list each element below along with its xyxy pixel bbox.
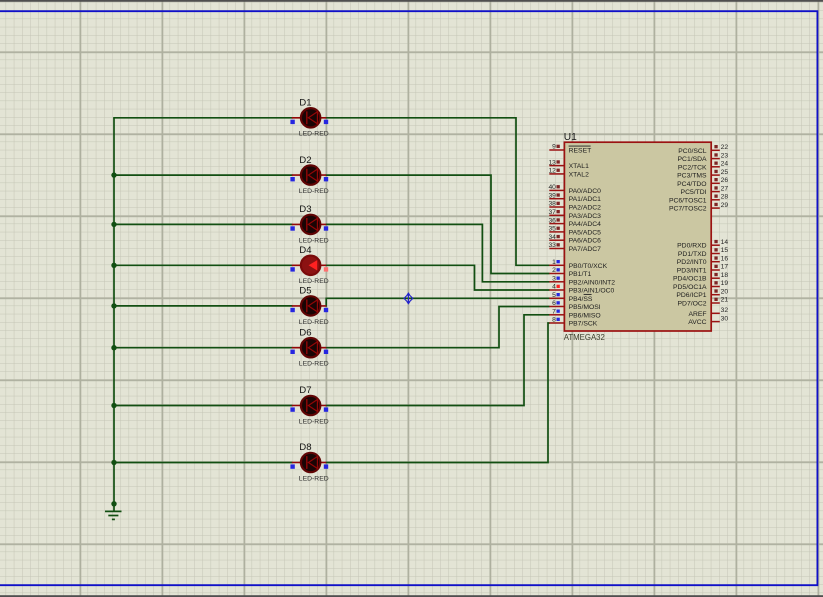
svg-text:14: 14 — [721, 239, 729, 246]
U1 right pin 27 (PC5/TDI) — [681, 185, 729, 196]
svg-text:34: 34 — [548, 234, 556, 241]
top dark edge — [0, 0, 823, 2]
wire: bus to D4 anode row — [113, 264, 292, 266]
U1 right pin 30 (AVCC) — [688, 315, 728, 326]
U1 right pin 32 (AREF) — [688, 307, 728, 318]
U1 left pin 36 (PA4/ADC4) — [548, 217, 601, 228]
LED D5 — [290, 286, 328, 326]
svg-text:40: 40 — [548, 184, 556, 191]
LED D1 — [290, 98, 328, 138]
U1 left pin 8 (PB7/SCK) — [549, 317, 597, 328]
U1 left pin 33 (PA7/ADC7) — [548, 242, 601, 253]
svg-text:LED-RED: LED-RED — [299, 319, 329, 326]
U1 right pin 19 (PD5/OC1A) — [673, 280, 728, 291]
svg-text:PD7/OC2: PD7/OC2 — [678, 301, 707, 308]
svg-text:21: 21 — [721, 297, 729, 304]
svg-text:PC2/TCK: PC2/TCK — [678, 164, 707, 171]
svg-text:8: 8 — [552, 317, 556, 324]
U1 right pin 20 (PD6/ICP1) — [676, 288, 728, 299]
svg-text:6: 6 — [552, 300, 556, 307]
svg-text:5: 5 — [552, 292, 556, 299]
wire: bus to D7 anode row — [113, 405, 292, 407]
svg-text:AVCC: AVCC — [688, 319, 706, 326]
LED D7 — [290, 385, 328, 425]
U1 right pin 25 (PC3/TMS) — [677, 169, 728, 180]
svg-text:22: 22 — [721, 144, 729, 151]
wire: D2 cathode to U1 pin 2 (PB1) — [326, 175, 550, 273]
svg-text:PB3/AIN1/OC0: PB3/AIN1/OC0 — [569, 288, 615, 295]
svg-text:9: 9 — [552, 144, 556, 151]
svg-text:PB1/T1: PB1/T1 — [569, 271, 592, 278]
svg-text:PB0/T0/XCK: PB0/T0/XCK — [569, 263, 608, 270]
junction on bus at D7 row — [111, 403, 116, 408]
LED D6 — [290, 327, 328, 367]
U1 right pin 14 (PD0/RXD) — [677, 239, 728, 250]
junction on bus at D6 row — [111, 345, 116, 350]
U1 left pin 5 (PB4/SS) — [549, 292, 593, 303]
junction on bus at D2 row — [111, 172, 116, 177]
svg-text:39: 39 — [548, 192, 556, 199]
U1 left pin 38 (PA2/ADC2) — [548, 201, 601, 212]
svg-text:PB7/SCK: PB7/SCK — [569, 321, 598, 328]
svg-text:18: 18 — [721, 272, 729, 279]
U1 left pin 34 (PA6/ADC6) — [548, 234, 601, 245]
junction on bus at D4 row — [111, 263, 116, 268]
U1 right pin 15 (PD1/TXD) — [678, 247, 728, 258]
svg-text:33: 33 — [548, 242, 556, 249]
svg-text:24: 24 — [721, 161, 729, 168]
wire: bus to D3 anode row — [113, 223, 292, 225]
svg-text:PC3/TMS: PC3/TMS — [677, 173, 707, 180]
wire: D1 cathode to U1 pin 1 (PB0) — [326, 118, 550, 265]
LED D4 — [290, 245, 328, 285]
svg-text:LED-RED: LED-RED — [299, 475, 329, 482]
junction on bus at D5 row — [111, 303, 116, 308]
U1 left pin 2 (PB1/T1) — [549, 267, 591, 278]
svg-text:AREF: AREF — [688, 311, 706, 318]
svg-text:PB4/SS: PB4/SS — [569, 296, 593, 303]
U1 left pin 1 (PB0/T0/XCK) — [549, 259, 607, 270]
U1 left pin 4 (PB3/AIN1/OC0) — [549, 284, 614, 295]
U1 right pin 21 (PD7/OC2) — [678, 297, 729, 308]
IC U1 body — [564, 142, 711, 331]
origin marker — [404, 293, 413, 304]
svg-text:27: 27 — [721, 185, 729, 192]
svg-text:PA4/ADC4: PA4/ADC4 — [569, 221, 602, 228]
svg-text:13: 13 — [548, 159, 556, 166]
svg-text:7: 7 — [552, 309, 556, 316]
svg-text:30: 30 — [721, 315, 729, 322]
junction at ground — [111, 501, 116, 506]
svg-text:PC7/TOSC2: PC7/TOSC2 — [669, 206, 707, 213]
svg-text:3: 3 — [552, 276, 556, 283]
U1 right pin 28 (PC6/TOSC1) — [669, 194, 728, 205]
svg-text:1: 1 — [552, 259, 556, 266]
svg-text:XTAL2: XTAL2 — [569, 171, 589, 178]
svg-text:D2: D2 — [299, 155, 311, 166]
svg-text:D4: D4 — [299, 245, 312, 256]
svg-text:D8: D8 — [299, 442, 311, 453]
svg-text:PD5/OC1A: PD5/OC1A — [673, 284, 707, 291]
svg-text:29: 29 — [721, 202, 729, 209]
U1 right pin 16 (PD2/INT0) — [677, 255, 729, 266]
svg-text:D7: D7 — [299, 385, 311, 396]
svg-text:D5: D5 — [299, 286, 311, 297]
U1 right pin 17 (PD3/INT1) — [677, 264, 729, 275]
svg-text:17: 17 — [721, 264, 729, 271]
wire: bus to D8 anode row — [113, 462, 292, 464]
svg-text:PD4/OC1B: PD4/OC1B — [673, 276, 707, 283]
svg-text:15: 15 — [721, 247, 729, 254]
LED D2 — [290, 155, 328, 195]
svg-text:PA2/ADC2: PA2/ADC2 — [569, 205, 602, 212]
svg-text:19: 19 — [721, 280, 729, 287]
U1 left pin 9 (RESET) — [549, 144, 591, 155]
svg-text:LED-RED: LED-RED — [299, 237, 329, 244]
svg-text:PA7/ADC7: PA7/ADC7 — [569, 246, 602, 253]
svg-text:LED-RED: LED-RED — [299, 131, 329, 138]
U1 left pin 7 (PB6/MISO) — [549, 309, 600, 320]
svg-text:28: 28 — [721, 194, 729, 201]
wire: bus to D1 anode row — [113, 117, 292, 119]
U1 right pin 24 (PC2/TCK) — [678, 161, 728, 172]
svg-text:12: 12 — [548, 168, 556, 175]
svg-text:2: 2 — [552, 267, 556, 274]
svg-text:D3: D3 — [299, 204, 311, 215]
U1 right pin 29 (PC7/TOSC2) — [669, 202, 728, 213]
svg-text:PC1/SDA: PC1/SDA — [678, 156, 708, 163]
svg-text:PD3/INT1: PD3/INT1 — [677, 268, 707, 275]
wire: D6 cathode to U1 pin 6 (PB5) — [326, 307, 550, 348]
svg-text:LED-RED: LED-RED — [299, 188, 329, 195]
U1 left pin 3 (PB2/AIN0/INT2) — [549, 276, 615, 287]
svg-text:16: 16 — [721, 255, 729, 262]
svg-text:PB2/AIN0/INT2: PB2/AIN0/INT2 — [569, 279, 616, 286]
U1 left pin 12 (XTAL2) — [548, 168, 589, 179]
U1 left pin 35 (PA5/ADC5) — [548, 226, 601, 237]
svg-text:LED-RED: LED-RED — [299, 361, 329, 368]
svg-text:32: 32 — [721, 307, 729, 314]
wire: bus to D6 anode row — [113, 347, 292, 349]
svg-text:PC0/SCL: PC0/SCL — [678, 148, 707, 155]
svg-text:25: 25 — [721, 169, 729, 176]
svg-text:D6: D6 — [299, 327, 311, 338]
svg-text:PD2/INT0: PD2/INT0 — [677, 259, 707, 266]
svg-text:U1: U1 — [564, 132, 577, 143]
svg-text:PB5/MOSI: PB5/MOSI — [569, 304, 601, 311]
LED D3 — [290, 204, 328, 244]
svg-text:PA0/ADC0: PA0/ADC0 — [569, 188, 602, 195]
svg-text:4: 4 — [552, 284, 556, 291]
LED D8 — [290, 442, 328, 482]
U1 left pin 13 (XTAL1) — [548, 159, 589, 170]
svg-text:38: 38 — [548, 201, 556, 208]
U1 left pin 39 (PA1/ADC1) — [548, 192, 601, 203]
svg-text:PD6/ICP1: PD6/ICP1 — [676, 292, 706, 299]
wire: bus to D5 anode row — [113, 305, 292, 307]
wire: ground bus vertical — [113, 118, 115, 511]
svg-text:D1: D1 — [299, 98, 311, 109]
svg-text:PC4/TDO: PC4/TDO — [677, 181, 706, 188]
svg-text:PA6/ADC6: PA6/ADC6 — [569, 238, 602, 245]
svg-text:37: 37 — [548, 209, 556, 216]
U1 right pin 23 (PC1/SDA) — [678, 152, 729, 163]
svg-text:PB6/MISO: PB6/MISO — [569, 312, 601, 319]
svg-text:26: 26 — [721, 177, 729, 184]
wire: D3 cathode to U1 pin 3 (PB2) — [326, 224, 550, 281]
svg-text:PD0/RXD: PD0/RXD — [677, 243, 707, 250]
svg-text:PC6/TOSC1: PC6/TOSC1 — [669, 197, 707, 204]
U1 left pin 6 (PB5/MOSI) — [549, 300, 601, 311]
svg-text:LED-RED: LED-RED — [299, 278, 329, 285]
svg-text:RESET: RESET — [569, 148, 592, 155]
ground — [105, 511, 122, 519]
junction on bus at D8 row — [111, 460, 116, 465]
U1 right pin 18 (PD4/OC1B) — [673, 272, 728, 283]
wire: D8 cathode to U1 pin 8 (PB7) — [326, 323, 550, 463]
U1 left pin 40 (PA0/ADC0) — [548, 184, 601, 195]
svg-text:PD1/TXD: PD1/TXD — [678, 251, 707, 258]
wire: D7 cathode to U1 pin 7 (PB6) — [326, 315, 550, 406]
svg-text:PA3/ADC3: PA3/ADC3 — [569, 213, 602, 220]
wire: D5 cathode to U1 pin 5 (PB4) — [326, 298, 550, 306]
svg-text:PA5/ADC5: PA5/ADC5 — [569, 229, 602, 236]
svg-text:ATMEGA32: ATMEGA32 — [564, 333, 605, 342]
svg-text:PA1/ADC1: PA1/ADC1 — [569, 196, 602, 203]
U1 right pin 26 (PC4/TDO) — [677, 177, 728, 188]
U1 left pin 37 (PA3/ADC3) — [548, 209, 601, 220]
svg-text:PC5/TDI: PC5/TDI — [681, 189, 707, 196]
svg-text:20: 20 — [721, 288, 729, 295]
svg-text:XTAL1: XTAL1 — [569, 163, 589, 170]
wire: bus to D2 anode row — [113, 174, 292, 176]
junction on bus at D3 row — [111, 222, 116, 227]
bottom dark edge — [0, 595, 823, 597]
U1 right pin 22 (PC0/SCL) — [678, 144, 728, 155]
svg-text:LED-RED: LED-RED — [299, 418, 329, 425]
svg-text:35: 35 — [548, 226, 556, 233]
svg-text:23: 23 — [721, 152, 729, 159]
svg-text:36: 36 — [548, 217, 556, 224]
wire: D4 cathode to U1 pin 4 (PB3) — [326, 265, 550, 290]
